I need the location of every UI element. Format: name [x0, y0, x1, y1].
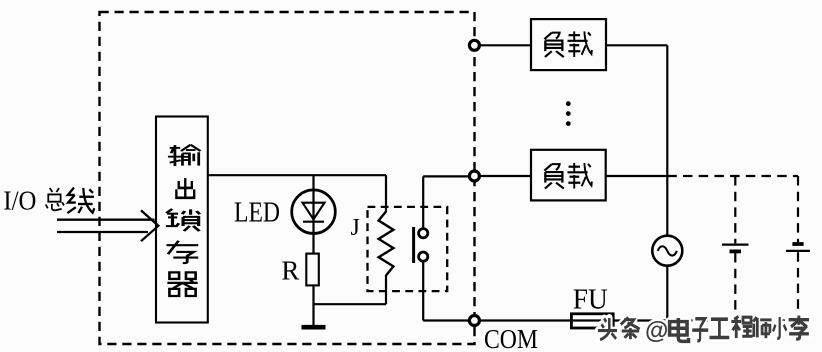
svg-text:COM: COM — [484, 324, 538, 352]
wire LED branch vertical — [312, 175, 314, 253]
output latch label 输出锁存器 — [166, 145, 201, 296]
load 1 label 负载 — [544, 31, 591, 57]
terminal node COM — [469, 316, 479, 326]
wire AC column vertical bottom — [666, 266, 668, 321]
svg-text:@: @ — [645, 318, 668, 345]
terminal node 1 — [469, 40, 479, 50]
svg-text:J: J — [351, 215, 360, 241]
output latch box U1 — [156, 117, 208, 323]
dashed wire row2 to batteries — [667, 175, 798, 177]
wire latch output to LED/coil node — [208, 174, 386, 176]
wire contact bottom vertical — [422, 261, 424, 320]
dashed battery B2 bottom lead — [797, 252, 799, 320]
dashed battery B1 top lead — [734, 176, 736, 243]
ground — [302, 325, 326, 330]
wire R bottom to ground — [312, 285, 314, 325]
wire contact top vertical — [422, 176, 424, 228]
load box 2 — [531, 150, 606, 201]
svg-text:I/O: I/O — [3, 186, 36, 216]
watermark text 头条 @电子工程师小李 — [598, 316, 809, 342]
wire AC column vertical top — [666, 45, 668, 235]
dashed battery B1 bottom lead — [734, 253, 736, 321]
svg-text:FU: FU — [573, 284, 608, 315]
fuse FU — [571, 314, 613, 328]
AC source G1 — [652, 236, 682, 266]
wire coil bottom vertical — [385, 275, 387, 304]
relay coil J — [379, 212, 394, 276]
dashed wire bottom to batteries — [667, 319, 798, 321]
relay dashed enclosure — [368, 207, 448, 291]
load box 1 — [531, 19, 606, 70]
wire coil top vertical — [385, 175, 387, 212]
wire contact feed horizontal — [423, 175, 469, 177]
wire terminal2 to load2 — [480, 175, 531, 177]
dashed battery B2 top lead — [797, 176, 799, 243]
wire fuse to AC column — [613, 319, 667, 321]
wire contact to COM terminal — [423, 319, 469, 321]
I/O bus label 总线 — [46, 188, 95, 213]
I/O bus arrow — [57, 210, 158, 241]
resistor R1 — [306, 254, 319, 286]
terminal node 2 — [469, 171, 479, 181]
wire terminal1 to load1 — [480, 44, 531, 46]
svg-text:R: R — [281, 256, 299, 286]
wire COM terminal to fuse — [480, 319, 571, 321]
module boundary dashed box — [100, 12, 475, 344]
ellipsis dots between loads — [566, 101, 571, 126]
wire coil bottom row — [314, 303, 387, 305]
watermark halo — [598, 316, 809, 342]
load 2 label 负载 — [544, 163, 591, 189]
wire load1 right to AC column — [606, 44, 667, 46]
relay contact K1 — [414, 227, 428, 263]
LED indicator D1 — [292, 190, 336, 234]
wire through fuse — [571, 319, 613, 321]
svg-text:LED: LED — [234, 197, 280, 228]
battery B1 — [722, 245, 749, 252]
wire load2 right to AC column — [606, 175, 667, 177]
battery B2 — [786, 244, 810, 251]
